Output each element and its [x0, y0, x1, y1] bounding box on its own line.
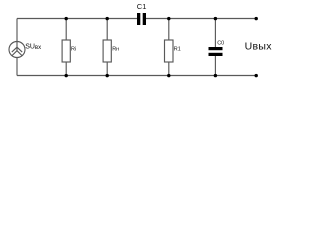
svg-text:R1: R1	[174, 46, 181, 52]
svg-text:вх: вх	[35, 45, 41, 51]
svg-text:Uвых: Uвых	[245, 40, 273, 52]
svg-text:Ri: Ri	[71, 46, 76, 52]
svg-text:Rн: Rн	[112, 46, 119, 52]
svg-text:SU: SU	[25, 44, 35, 51]
svg-text:C1: C1	[137, 2, 147, 11]
svg-text:C0: C0	[217, 41, 224, 47]
